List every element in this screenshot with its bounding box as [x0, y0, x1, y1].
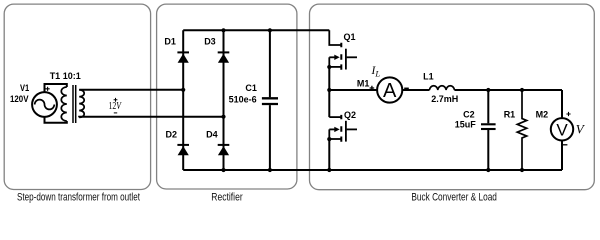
wire bottom rail: [183, 169, 562, 171]
svg-text:Buck Converter & Load: Buck Converter & Load: [411, 192, 497, 203]
svg-text:M1: M1: [357, 78, 370, 88]
svg-text:Step-down transformer from out: Step-down transformer from outlet: [17, 192, 140, 203]
svg-text:Q2: Q2: [344, 110, 356, 120]
junction bottom rail at D4: [221, 168, 225, 172]
junction bottom rail at C1: [268, 168, 272, 172]
svg-text:M2: M2: [536, 110, 549, 120]
wire L1 to output node: [454, 89, 562, 91]
wire secondary top to rectifier: [79, 89, 183, 91]
capacitor C1: [269, 30, 271, 97]
wire ammeter to L1: [402, 89, 429, 91]
diode D4: [218, 144, 230, 146]
junction bottom rail at C2: [486, 168, 490, 172]
svg-text:D4: D4: [206, 130, 218, 140]
junction output wire at R1: [520, 88, 524, 92]
svg-text:T1 10:1: T1 10:1: [50, 71, 81, 81]
transformer T1 primary winding: [61, 87, 67, 121]
junction top rail at D3: [221, 28, 225, 32]
resistor R1: [517, 90, 526, 170]
wire secondary bottom to rectifier: [79, 116, 223, 119]
voltage source V1: [32, 92, 57, 117]
junction top rail at C1: [268, 28, 272, 32]
svg-text:L1: L1: [423, 72, 434, 82]
section box: Rectifier: [157, 4, 297, 189]
wire M1 node to ammeter: [329, 89, 377, 91]
svg-text:A: A: [383, 80, 397, 102]
junction secondary bottom at D3/D4: [221, 115, 225, 119]
svg-text:D2: D2: [166, 130, 178, 140]
svg-text:R1: R1: [504, 110, 516, 120]
svg-text:V1: V1: [20, 83, 29, 93]
transistor Q1: [329, 30, 341, 45]
polarity + of M2: [566, 112, 570, 116]
wire D3/D4 column: [223, 30, 225, 170]
section box: Buck Converter & Load: [310, 4, 595, 190]
voltmeter M2: [551, 118, 573, 140]
inductor L1: [430, 86, 455, 90]
svg-text:D1: D1: [164, 36, 176, 46]
polarity - of M2: [563, 144, 567, 146]
polarity + of M1: [370, 86, 375, 91]
diode D2: [177, 144, 189, 146]
wire Q1 source down to Q2: [328, 67, 330, 117]
svg-text:C2: C2: [463, 110, 475, 120]
svg-text:C1: C1: [245, 83, 257, 93]
capacitor C2: [487, 90, 489, 123]
section box: Step-down transformer: [4, 4, 150, 189]
svg-text:V: V: [556, 121, 568, 140]
diode D3: [218, 51, 230, 53]
wire voltmeter to bottom rail: [561, 141, 563, 171]
transformer T1 core: [73, 85, 76, 123]
wire V1 bottom to transformer primary: [45, 117, 67, 123]
wire output node down to voltmeter: [561, 90, 563, 119]
ammeter M1: [377, 77, 402, 102]
svg-text:2.7mH: 2.7mH: [431, 94, 458, 104]
transistor Q2: [329, 116, 341, 118]
wire rectifier top rail: [183, 29, 329, 31]
transformer T1 secondary winding: [79, 90, 84, 118]
svg-text:15uF: 15uF: [455, 120, 477, 130]
svg-text:D3: D3: [204, 36, 216, 46]
junction bottom rail at R1: [520, 168, 524, 172]
wire V1 top to transformer primary: [45, 84, 67, 92]
svg-text:120V: 120V: [10, 94, 29, 104]
svg-text:510e-6: 510e-6: [229, 95, 257, 105]
junction secondary top at D1/D2: [181, 88, 185, 92]
svg-text:Q1: Q1: [344, 32, 356, 42]
wire D1/D2 column: [182, 30, 184, 170]
diode D1: [177, 51, 189, 53]
junction Q2 source at bottom rail: [327, 168, 331, 172]
polarity - of M1: [404, 87, 409, 89]
wire Q2 source to bottom rail: [328, 139, 330, 170]
svg-text:12V: 12V: [109, 101, 123, 112]
polarity + of V1: [46, 87, 50, 91]
junction output wire at C2: [486, 88, 490, 92]
junction M1 node: [327, 88, 331, 92]
svg-text:Rectifier: Rectifier: [211, 192, 243, 203]
